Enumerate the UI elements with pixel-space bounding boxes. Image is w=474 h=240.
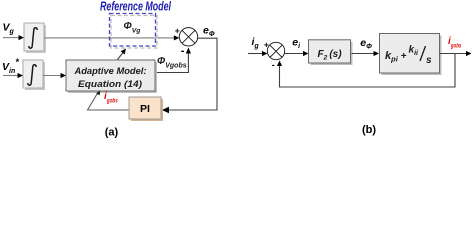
wire adaptive model output to junction A (feedback minus) <box>155 54 188 73</box>
wire integrator1 to summing junction <box>44 37 174 39</box>
wire feedback loop (b) <box>280 54 456 88</box>
wire integrator2 to adaptive model <box>43 75 61 77</box>
wire output igobs <box>440 53 467 55</box>
svg-text:-: - <box>181 45 185 57</box>
wire F2 to PI block <box>352 53 374 55</box>
summing junction B <box>267 42 284 59</box>
svg-text:(b): (b) <box>362 124 376 136</box>
arrow adaptive model to reference model (adaptation) <box>118 52 124 60</box>
PI block <box>131 99 163 121</box>
svg-text:-: - <box>272 60 275 70</box>
svg-text:Equation (14): Equation (14) <box>78 79 142 90</box>
integrator block 1 (Vg) <box>26 25 46 53</box>
svg-text:(a): (a) <box>105 126 119 138</box>
reference model dashed box shadow <box>111 16 157 49</box>
svg-text:F2(s): F2(s) <box>317 49 342 62</box>
wire Vin input <box>3 75 18 77</box>
wire PI output to adaptive model (diagonal) <box>88 94 130 110</box>
integrator block 2 (Vin) <box>25 62 45 90</box>
block kpi + kii/s <box>382 36 442 76</box>
svg-text:Reference Model: Reference Model <box>100 0 171 14</box>
wire junction B to F2 <box>285 53 303 55</box>
svg-text:s: s <box>426 55 432 66</box>
svg-text:PI: PI <box>140 103 150 115</box>
svg-text:Adaptive Model:: Adaptive Model: <box>74 66 147 77</box>
wire Vg input <box>3 37 19 39</box>
svg-text:+: + <box>175 25 180 35</box>
reference model dashed box <box>110 14 156 47</box>
block F2(s) <box>311 42 353 65</box>
summing junction A <box>179 28 197 46</box>
adaptive model block <box>68 62 157 93</box>
wire ig input <box>248 53 262 55</box>
wire junction A output to PI (right, down, left) <box>167 38 217 110</box>
